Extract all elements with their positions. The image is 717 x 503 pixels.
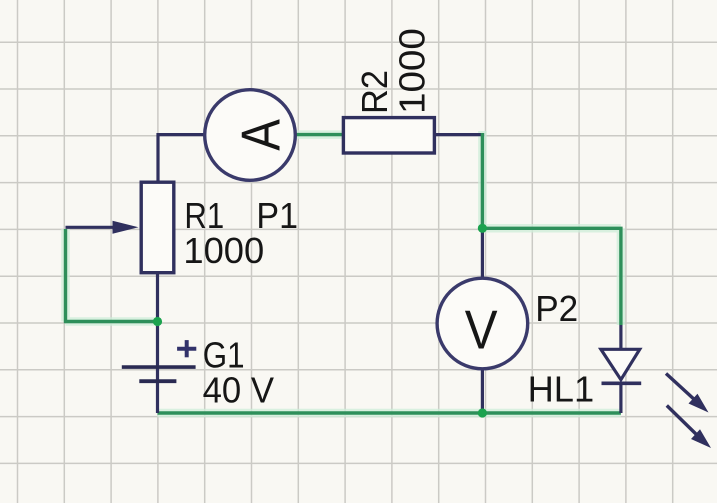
wire: R2 right to corner (navy) <box>435 133 485 136</box>
battery G1 short plate <box>139 379 176 383</box>
svg-text:V: V <box>465 299 498 361</box>
svg-text:1000: 1000 <box>392 28 433 114</box>
ammeter letter A (rotated) <box>230 119 292 151</box>
resistor R2 <box>343 118 434 153</box>
wire: battery stem J1 to bottom rail (navy) <box>156 322 159 414</box>
wire: ammeter right to R2 left (green) <box>296 133 343 136</box>
svg-text:A: A <box>230 119 292 151</box>
wire: corner down to node J2 (green) <box>481 133 484 228</box>
ammeter P1 <box>205 90 296 181</box>
wire: node J2 down to voltmeter top (navy) <box>481 228 484 278</box>
wire: bottom rail battery to LED (green) <box>158 411 621 414</box>
svg-text:R2: R2 <box>354 70 395 114</box>
LED HL1 triangle <box>601 349 640 379</box>
battery G1 long plate <box>122 365 196 369</box>
wire: voltmeter bottom to node J3 (navy) <box>481 369 484 413</box>
LED light arrow 1 <box>666 374 709 413</box>
wire: wiper return, arrow corner down and right to node J1 (green) <box>66 229 158 322</box>
wire: LED cathode stem (navy) <box>619 383 622 413</box>
green wire glow (decorative) <box>66 131 621 413</box>
node J3 junction dot <box>478 408 487 417</box>
wire: R1 top to ammeter left (navy) <box>158 135 204 182</box>
potentiometer wiper arrow (navy) <box>66 221 139 234</box>
voltmeter P2 <box>437 278 528 369</box>
LED light arrow 2 <box>667 406 711 449</box>
svg-text:HL1: HL1 <box>528 368 595 409</box>
resistor R1 <box>141 182 174 273</box>
wire: R1 bottom stem to node J1 (navy) <box>156 274 159 322</box>
LED HL1 cathode bar <box>602 381 642 385</box>
svg-text:40 V: 40 V <box>203 370 274 411</box>
wire: node J2 to LED branch corner (green) <box>482 228 621 325</box>
node J2 junction dot <box>478 224 487 233</box>
battery plus sign <box>177 340 196 357</box>
svg-text:P2: P2 <box>535 288 578 329</box>
wire: LED anode stem (navy) <box>619 325 622 350</box>
node J1 junction dot <box>153 317 162 326</box>
svg-text:1000: 1000 <box>183 230 264 271</box>
